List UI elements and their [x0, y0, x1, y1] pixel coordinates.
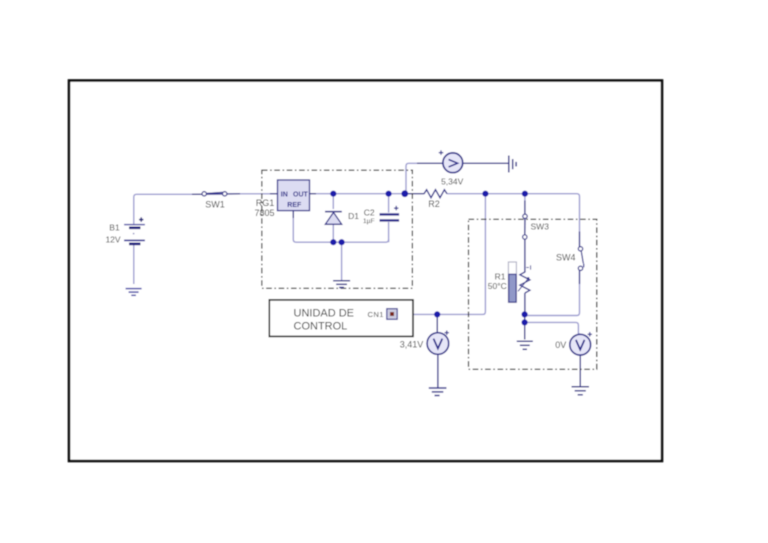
svg-text:UNIDAD DE: UNIDAD DE	[294, 307, 355, 319]
svg-text:OUT: OUT	[293, 191, 309, 198]
svg-text:5,34V: 5,34V	[441, 176, 464, 186]
svg-text:REF: REF	[287, 202, 302, 209]
svg-text:B1: B1	[109, 223, 120, 233]
svg-text:SW3: SW3	[531, 221, 550, 231]
svg-text:3,41V: 3,41V	[400, 340, 424, 350]
svg-text:CN1: CN1	[368, 310, 384, 319]
svg-text:SW4: SW4	[556, 252, 576, 262]
svg-text:50°C: 50°C	[488, 281, 507, 291]
svg-text:RG1: RG1	[256, 198, 275, 208]
svg-text:12V: 12V	[105, 235, 120, 245]
svg-text:D1: D1	[348, 211, 359, 221]
svg-text:R2: R2	[428, 199, 440, 209]
svg-text:0V: 0V	[555, 340, 566, 350]
svg-text:1µF: 1µF	[363, 218, 375, 225]
svg-text:CONTROL: CONTROL	[294, 320, 348, 332]
svg-text:IN: IN	[281, 191, 288, 198]
svg-text:7805: 7805	[254, 208, 274, 218]
svg-text:SW1: SW1	[205, 199, 225, 209]
svg-text:C2: C2	[364, 207, 375, 217]
